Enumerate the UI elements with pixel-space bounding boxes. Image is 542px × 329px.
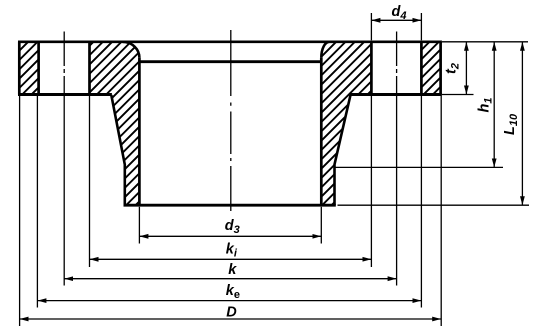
centerline: left bolt hole axis [63,32,65,286]
outline: left hub taper [111,95,125,205]
outline: right bolt hole inner wall [370,42,373,95]
dimension line: D [20,318,442,320]
outline: right bore wall [320,58,323,205]
centerline: right bolt hole axis [396,32,398,286]
hatch left rim section [19,42,38,95]
extension line: ke left [36,96,38,308]
outline: right outer edge [439,42,442,95]
outline: left bore fillet [123,42,140,58]
extension line: ke right [420,96,422,308]
dimension line: k [64,278,396,280]
dimension line: L10 [521,42,523,205]
extension line: t2 bottom [442,94,474,96]
outline: right hub taper [335,95,351,205]
outline: right bolt hole outer wall [420,42,423,95]
outline: flange bottom right [350,93,442,96]
dimension line: t2 [465,42,467,95]
svg-text:D: D [226,304,237,320]
outline: left outer edge [18,42,21,95]
outline: bore tangent line [139,60,321,63]
extension line: ki right [370,96,372,267]
extension line: d4 right [420,13,422,40]
svg-text:k: k [228,262,237,278]
dimension line: ke [37,300,421,302]
extension line: D right [440,96,442,326]
dimension line: ki [90,258,372,260]
outline: left bolt hole outer wall [37,42,40,95]
extension line: D left [19,96,21,326]
extension line: top right [442,41,528,43]
extension line: d3 left [138,207,140,244]
outline: flange bottom left [18,93,112,96]
extension line: ki left [89,96,91,267]
centerline: main axis [230,30,232,211]
dimension line: d4 [371,19,421,21]
outline: right bore fillet [321,42,329,58]
extension line: d4 left [370,13,372,40]
dimension line: d3 [139,235,321,237]
hatch left hub section [90,42,140,205]
dimension line: h1 [493,42,495,168]
hatch right hub section [321,42,371,205]
outline: hub bottom [124,204,336,207]
extension line: L10 bottom [338,204,530,206]
outline: left bore wall [138,58,141,205]
outline: left bolt hole inner wall [88,42,91,95]
outline: flange top surface [18,40,442,43]
extension line: h1 bottom [335,166,504,168]
extension line: d3 right [320,207,322,244]
hatch right rim section [421,42,440,95]
